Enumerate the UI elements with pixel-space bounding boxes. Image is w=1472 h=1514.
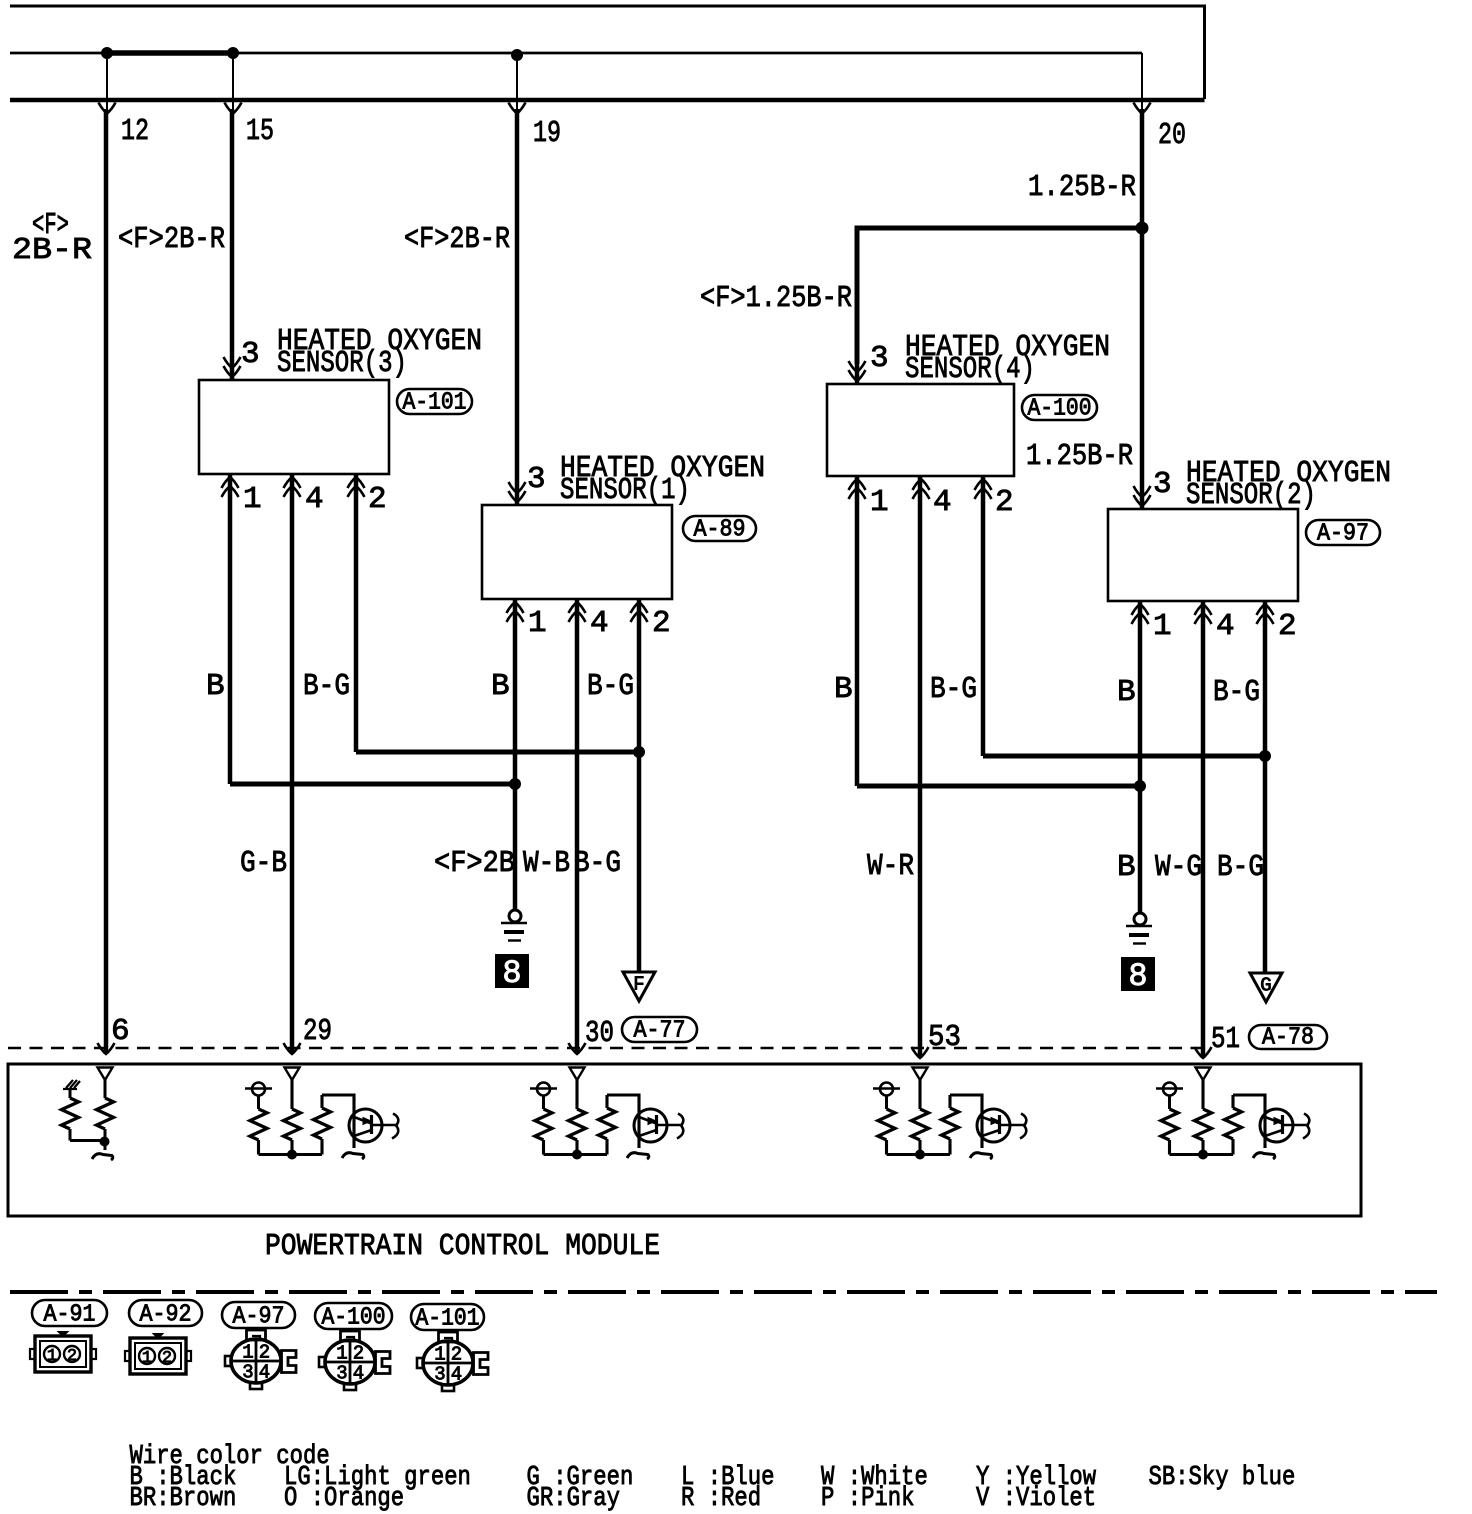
wire: pin 3 feed into S2 [1134, 486, 1151, 509]
wire S3 pin1 to S1 pin1 (y784) [230, 782, 515, 787]
legend row: R Red [681, 1484, 761, 1514]
connector tag A-100 [1022, 395, 1097, 423]
legend title: Wire color code [130, 1442, 330, 1472]
svg-text:1: 1 [336, 1343, 347, 1365]
PCM input triangle at pin x=105 [98, 1068, 113, 1081]
svg-text:<F>2B-R: <F>2B-R [404, 222, 510, 257]
svg-text:POWERTRAIN CONTROL MODULE: POWERTRAIN CONTROL MODULE [265, 1229, 660, 1264]
svg-text:B: B [491, 669, 510, 704]
svg-text:A-89: A-89 [694, 517, 746, 544]
pin number 2 of S4 [995, 485, 1014, 520]
legend row: V Violet [976, 1484, 1096, 1514]
svg-text:4: 4 [590, 606, 609, 641]
PCM resistor R-right at x=322 [314, 1095, 331, 1155]
label POWERTRAIN CONTROL MODULE [265, 1229, 660, 1264]
label B (S1 pin1) [491, 669, 510, 704]
svg-text:4: 4 [305, 482, 324, 517]
legend row: GR Gray [527, 1484, 621, 1514]
svg-text:3: 3 [336, 1363, 347, 1385]
transistor emitter ground hook (pin x=1203) [1253, 1153, 1275, 1159]
terminal number 19 [533, 116, 561, 151]
wire B-G from S3 pin 2 [354, 474, 359, 752]
svg-text:3: 3 [241, 337, 260, 372]
legend row: LG Light green [284, 1463, 471, 1493]
PCM base rail to transistor at pin x=1203 [1233, 1095, 1265, 1148]
legend row: W White [821, 1463, 928, 1493]
label (F)2B [434, 846, 515, 881]
label B-G (S4 pin2) [930, 672, 977, 707]
svg-text:2B-R: 2B-R [12, 233, 92, 268]
PCM junction dot at (577,1155) [573, 1150, 582, 1159]
PCM resistor R-mid at x=920 [912, 1080, 929, 1155]
pin number 3 of S3 [241, 337, 260, 372]
svg-text:B: B [206, 669, 225, 704]
PCM junction dot at (1203,1155) [1199, 1150, 1208, 1159]
label (F)2B-R (wire 15) [118, 222, 225, 257]
bus rail C [10, 98, 1205, 103]
svg-text:20: 20 [1158, 118, 1186, 153]
PCM input triangle at pin x=1203 [1196, 1068, 1211, 1081]
wire B-G from S4 pin 2 [981, 476, 986, 756]
svg-text:W-R: W-R [867, 849, 914, 884]
PCM resistor R-right at x=1233 [1225, 1095, 1242, 1155]
svg-text:SENSOR(4): SENSOR(4) [905, 352, 1035, 387]
label HEATED OXYGEN SENSOR(1) [560, 451, 765, 508]
svg-text:2: 2 [652, 606, 671, 641]
svg-text:F: F [633, 974, 644, 996]
label B (S4 pin1) [834, 672, 853, 707]
terminal number 6 [111, 1014, 130, 1049]
connector tag A-89 [683, 516, 756, 544]
legend row: O Orange [284, 1484, 404, 1514]
terminal number 20 [1158, 118, 1186, 153]
pin 4 arrow of S2 [1195, 604, 1212, 624]
svg-text:P :Pink: P :Pink [821, 1484, 915, 1514]
label B (ground right) [1117, 850, 1136, 885]
label B-G (S1 pin2) [587, 669, 634, 704]
PCM bottom rail under pin x=1203 [1170, 1153, 1234, 1156]
svg-text:4: 4 [933, 485, 952, 520]
svg-text:1: 1 [47, 1347, 57, 1366]
pin number 1 of S1 [528, 606, 547, 641]
wire B from S1 pin 1 to ground [501, 599, 527, 941]
PCM resistor left (terminal 6) [62, 1089, 79, 1141]
heated oxygen sensor S2 box [1108, 509, 1298, 601]
bus rail B [10, 52, 1142, 55]
svg-text:W-B: W-B [523, 846, 570, 881]
PCM resistor R-left at x=543.5 [535, 1109, 552, 1155]
svg-text:G: G [1260, 975, 1271, 997]
label B-G (lower) [574, 846, 621, 881]
junction node (515,784) [510, 779, 521, 790]
pin number 4 of S2 [1216, 609, 1235, 644]
label 1.25B-R (wire 20) [1028, 170, 1136, 205]
pin 4 arrow of S4 [913, 479, 930, 499]
svg-text:A-97: A-97 [233, 1304, 285, 1331]
pin number 1 of S2 [1153, 609, 1172, 644]
svg-text:1: 1 [870, 485, 889, 520]
PCM bottom rail under pin x=920 [887, 1153, 951, 1156]
svg-text:<F>1.25B-R: <F>1.25B-R [700, 281, 852, 316]
svg-text:B-G: B-G [303, 669, 350, 704]
connector tag A-101 (bottom) [411, 1304, 484, 1333]
pin number 4 of S3 [305, 482, 324, 517]
PCM base rail to transistor at pin x=920 [950, 1095, 982, 1148]
label HEATED OXYGEN SENSOR(2) [1186, 456, 1391, 513]
svg-text:4: 4 [353, 1363, 364, 1385]
wire 15 drop from rail B [225, 53, 242, 114]
terminal number 15 [246, 114, 274, 149]
PCM resistor R-mid at x=577 [569, 1080, 586, 1155]
PCM hatch mark (terminal 6 pull resistor) [63, 1080, 80, 1089]
PCM resistor R-right at x=950 [942, 1095, 959, 1155]
connector icon A-91 (2-pin) [30, 1332, 96, 1372]
label B (S3 pin1) [206, 669, 225, 704]
label B (S2 pin1) [1117, 675, 1136, 710]
svg-text:SENSOR(1): SENSOR(1) [560, 473, 690, 508]
pin number 2 of S3 [368, 482, 387, 517]
wire G-B from S3 pin 4 to terminal 29 [284, 474, 301, 1054]
svg-text:2: 2 [368, 482, 387, 517]
wire B-G from S2 pin 2 to connector G [1263, 601, 1268, 973]
wire 20 drop from rail B corner [1134, 53, 1151, 114]
svg-text:2: 2 [259, 1342, 270, 1364]
label (F)1.25B-R (branch) [700, 281, 852, 316]
PCM base rail to transistor at pin x=577 [607, 1095, 639, 1148]
svg-text:2: 2 [67, 1347, 77, 1366]
PCM resistor R-left at x=258.5 [250, 1109, 267, 1155]
connector tag A-78 [1249, 1025, 1327, 1052]
legend row: P Pink [821, 1484, 915, 1514]
svg-text:8: 8 [502, 955, 521, 992]
svg-text:8: 8 [1128, 958, 1147, 995]
junction node (639,752) [634, 747, 645, 758]
terminal number 30 [585, 1016, 614, 1051]
dash-dot separator line [10, 1290, 1437, 1294]
wire: pin 3 feed into S4 [849, 361, 866, 384]
svg-text:6: 6 [111, 1014, 130, 1049]
svg-text:2: 2 [451, 1344, 462, 1366]
heated oxygen sensor S3 box [199, 380, 389, 474]
transistor collector output (pin x=1203) [1283, 1114, 1310, 1139]
wire 12 drop from rail B [99, 53, 116, 114]
label G-B [240, 846, 287, 881]
connector tag A-77 [622, 1017, 697, 1045]
connector tag A-100 (bottom) [315, 1303, 392, 1332]
svg-text:2: 2 [995, 485, 1014, 520]
label W-G [1155, 850, 1202, 885]
svg-text:4: 4 [451, 1364, 462, 1386]
label B-G (lower right) [1217, 850, 1264, 885]
pin number 2 of S2 [1278, 609, 1297, 644]
svg-text:SENSOR(2): SENSOR(2) [1186, 478, 1316, 513]
legend row: L Blue [681, 1463, 775, 1493]
transistor emitter ground hook (pin x=292) [342, 1153, 364, 1159]
connector icon A-100 (4-pin round) [319, 1331, 390, 1390]
wire 15 main run to sensor(3) [230, 109, 235, 358]
svg-text:A-97: A-97 [1317, 521, 1369, 548]
transistor Q (pin x=292) [349, 1109, 382, 1142]
svg-text:4: 4 [259, 1362, 270, 1384]
PCM resistor R-mid at x=1203 [1195, 1080, 1212, 1155]
transistor Q (pin x=1203) [1260, 1109, 1293, 1142]
POWERTRAIN CONTROL MODULE box [8, 1064, 1361, 1216]
label B-G (S2 pin2) [1213, 675, 1260, 710]
legend row: Y Yellow [976, 1463, 1096, 1493]
svg-text:1.25B-R: 1.25B-R [1026, 439, 1133, 474]
label W-R [867, 849, 914, 884]
svg-text:<F>2B-R: <F>2B-R [118, 222, 225, 257]
connector tag A-97 (bottom) [222, 1302, 295, 1331]
PCM junction dot (104,1142) [100, 1137, 109, 1146]
junction node (1265,756) [1260, 751, 1271, 762]
PCM interface dashed line [8, 1047, 1203, 1050]
wire: pin 3 feed into S1 [509, 482, 526, 505]
svg-text:A-78: A-78 [1262, 1025, 1314, 1052]
PCM junction dot at (292,1155) [288, 1150, 297, 1159]
svg-text:A-101: A-101 [416, 1306, 480, 1333]
connector icon A-101 (4-pin round) [417, 1332, 488, 1391]
svg-text:2: 2 [1278, 609, 1297, 644]
svg-text:B-G: B-G [1217, 850, 1264, 885]
PCM input triangle at pin x=920 [913, 1068, 928, 1081]
wire S4 pin2 to S2 pin2 (y756) [983, 754, 1265, 759]
svg-text:BR:Brown: BR:Brown [130, 1484, 237, 1514]
pin number 4 of S4 [933, 485, 952, 520]
wire B-G from S1 pin 2 to connector F [637, 599, 642, 972]
PCM sense source (circle) left of pin x=1203 [1156, 1083, 1183, 1110]
ground 8 box (right) [1121, 957, 1155, 995]
svg-text:1: 1 [434, 1344, 445, 1366]
connector triangle G [1250, 973, 1282, 1002]
PCM resistor R-left at x=886.5 [878, 1109, 895, 1155]
PCM input triangle at pin x=292 [285, 1068, 300, 1081]
connector icon A-92 (2-pin) [125, 1334, 191, 1374]
PCM resistor right (terminal 6) [97, 1080, 114, 1150]
label (F)2B-R (wire 19) [404, 222, 510, 257]
junction node on rail B at wire 12 [102, 48, 113, 59]
wire S4 pin1 to S2 pin1 (y786) [857, 784, 1140, 789]
PCM sense source (circle) left of pin x=920 [873, 1083, 900, 1110]
svg-text:3: 3 [870, 341, 889, 376]
svg-text:A-101: A-101 [403, 390, 467, 417]
wire 19 drop from rail B [509, 55, 526, 114]
svg-text:1: 1 [1153, 609, 1172, 644]
PCM resistor R-right at x=607 [599, 1095, 616, 1155]
PCM resistor R-left at x=1169.5 [1161, 1109, 1178, 1155]
svg-text:SB:Sky blue: SB:Sky blue [1149, 1463, 1296, 1493]
bus rail B thick segment node12-node15 [105, 50, 234, 56]
svg-text:O :Orange: O :Orange [284, 1484, 404, 1514]
wire S3 pin2 to S1 pin2 (y752) [356, 750, 639, 755]
transistor collector output (pin x=920) [1000, 1114, 1027, 1139]
wire W-B from S1 pin 4 to terminal 30 [569, 599, 586, 1054]
PCM ground hook (terminal 6) [92, 1154, 113, 1160]
label 1.25B-R (right of sensor 4) [1026, 439, 1133, 474]
wire: pin 3 feed into S3 [224, 357, 241, 380]
svg-text:A-91: A-91 [44, 1302, 96, 1329]
label (F) 2B-R (far left) [12, 208, 92, 268]
pin number 3 of S2 [1153, 467, 1172, 502]
svg-text:53: 53 [928, 1020, 961, 1055]
PCM bottom rail (terminal 6) [70, 1139, 104, 1142]
wire W-R from S4 pin 4 to terminal 53 [912, 476, 929, 1058]
connector icon A-97 (4-pin round) [225, 1330, 296, 1389]
svg-text:1: 1 [242, 1342, 253, 1364]
junction node wire20 branch [1136, 222, 1148, 234]
svg-text:R :Red: R :Red [681, 1484, 761, 1514]
PCM bottom rail under pin x=577 [544, 1153, 608, 1156]
pin 1 arrow of S4 [849, 479, 866, 499]
svg-text:29: 29 [303, 1014, 332, 1049]
junction node (1140,786) [1135, 781, 1146, 792]
svg-text:A-77: A-77 [634, 1018, 686, 1045]
pin number 2 of S1 [652, 606, 671, 641]
wire 12/6 main run [98, 109, 115, 1054]
pin number 1 of S3 [243, 482, 262, 517]
svg-text:<F>2B: <F>2B [434, 846, 515, 881]
svg-text:1: 1 [243, 482, 262, 517]
PCM input triangle at pin x=577 [570, 1068, 585, 1081]
PCM junction dot at (920,1155) [916, 1150, 925, 1159]
svg-text:1: 1 [142, 1349, 152, 1368]
label B-G (S3 pin2) [303, 669, 350, 704]
connector triangle F [623, 972, 655, 1001]
svg-text:2: 2 [162, 1349, 172, 1368]
svg-text:W-G: W-G [1155, 850, 1202, 885]
connector tag A-91 (bottom) [32, 1300, 107, 1329]
svg-text:51: 51 [1211, 1022, 1240, 1057]
svg-text:3: 3 [527, 462, 546, 497]
pin 1 arrow of S1 [507, 602, 524, 622]
svg-text:B: B [1117, 850, 1136, 885]
svg-text:A-92: A-92 [140, 1302, 192, 1329]
PCM bottom rail under pin x=292 [259, 1153, 323, 1156]
svg-text:B-G: B-G [574, 846, 621, 881]
svg-text:B: B [1117, 675, 1136, 710]
pin 2 arrow of S1 [631, 602, 648, 622]
label HEATED OXYGEN SENSOR(3) [277, 324, 482, 381]
PCM sense source (circle) left of pin x=577 [530, 1083, 557, 1110]
pin number 4 of S1 [590, 606, 609, 641]
pin 2 arrow of S2 [1257, 604, 1274, 624]
PCM sense source (circle) left of pin x=292 [245, 1083, 272, 1110]
label HEATED OXYGEN SENSOR(4) [905, 330, 1110, 387]
wire branch to sensor(4) pin 3 [857, 228, 1142, 364]
svg-text:B: B [834, 672, 853, 707]
wire B from S4 pin 1 [855, 476, 860, 786]
transistor collector output (pin x=577) [657, 1114, 684, 1139]
legend row: G Green [527, 1463, 634, 1493]
svg-text:B-G: B-G [587, 669, 634, 704]
svg-text:3: 3 [242, 1362, 253, 1384]
svg-text:G-B: G-B [240, 846, 287, 881]
PCM resistor R-mid at x=292 [284, 1080, 301, 1155]
pin 1 arrow of S2 [1132, 604, 1149, 624]
terminal number 53 [928, 1020, 961, 1055]
pin number 3 of S4 [870, 341, 889, 376]
terminal number 12 [121, 114, 149, 149]
svg-text:V :Violet: V :Violet [976, 1484, 1096, 1514]
svg-text:GR:Gray: GR:Gray [527, 1484, 621, 1514]
heated oxygen sensor S1 box [482, 505, 672, 599]
wire B from S2 pin 1 to ground [1126, 601, 1152, 944]
PCM base rail to transistor at pin x=292 [322, 1095, 354, 1148]
transistor Q (pin x=577) [634, 1109, 667, 1142]
svg-text:19: 19 [533, 116, 561, 151]
wire B from S3 pin 1 [228, 474, 233, 784]
pin number 3 of S1 [527, 462, 546, 497]
svg-text:B-G: B-G [1213, 675, 1260, 710]
bus rail A (top) [10, 6, 1205, 99]
heated oxygen sensor S4 box [827, 384, 1014, 476]
connector tag A-97 [1306, 520, 1380, 548]
pin 4 arrow of S1 [569, 602, 586, 622]
svg-text:B-G: B-G [930, 672, 977, 707]
pin number 1 of S4 [870, 485, 889, 520]
legend row: BR Brown [130, 1484, 237, 1514]
svg-text:2: 2 [353, 1343, 364, 1365]
svg-text:1.25B-R: 1.25B-R [1028, 170, 1136, 205]
terminal number 51 [1211, 1022, 1240, 1057]
legend row: SB Sky blue [1149, 1463, 1296, 1493]
wire 20 main run to sensor(2) [1140, 109, 1145, 487]
pin 2 arrow of S3 [348, 477, 365, 497]
ground 8 box (left) [495, 954, 529, 992]
connector tag A-101 [397, 389, 472, 417]
svg-text:A-100: A-100 [1028, 396, 1092, 423]
svg-text:A-100: A-100 [322, 1305, 386, 1332]
svg-text:15: 15 [246, 114, 274, 149]
svg-text:3: 3 [434, 1364, 445, 1386]
pin 1 arrow of S3 [222, 477, 239, 497]
svg-text:30: 30 [585, 1016, 614, 1051]
svg-text:4: 4 [1216, 609, 1235, 644]
svg-text:SENSOR(3): SENSOR(3) [277, 346, 407, 381]
junction node on rail B at wire 15 [228, 48, 239, 59]
legend row: B Black [130, 1463, 237, 1493]
svg-text:1: 1 [528, 606, 547, 641]
label W-B [523, 846, 570, 881]
transistor collector output (pin x=292) [372, 1114, 399, 1139]
terminal number 29 [303, 1014, 332, 1049]
svg-text:12: 12 [121, 114, 149, 149]
pin 2 arrow of S4 [975, 479, 992, 499]
transistor Q (pin x=920) [977, 1109, 1010, 1142]
wire W-G from S2 pin 4 to terminal 51 [1195, 601, 1212, 1058]
junction node on rail B at wire 19 [512, 50, 523, 61]
connector tag A-92 (bottom) [129, 1300, 202, 1329]
pin 4 arrow of S3 [284, 477, 301, 497]
svg-text:3: 3 [1153, 467, 1172, 502]
wire 19 main run to sensor(1) [515, 109, 520, 485]
transistor emitter ground hook (pin x=920) [970, 1153, 992, 1159]
transistor emitter ground hook (pin x=577) [627, 1153, 649, 1159]
